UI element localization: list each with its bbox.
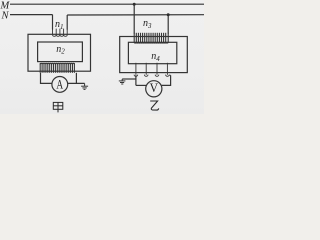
ground symbol right [119,79,126,84]
svg-text:A: A [56,78,63,92]
wire n4 left end down [135,75,137,85]
transformer yi core outer rect [120,37,188,73]
transformer jia core outer rect [28,34,91,71]
coil n2 winding (dense) [40,63,74,73]
coil n3 winding (dense) [134,33,168,43]
coil n1 turns [53,29,68,37]
svg-text:V: V [150,81,159,95]
wire ammeter to ground junction [68,82,85,84]
label jia (Chinese 甲) drawn as path [53,102,63,112]
wire n1 right lead to N [66,15,68,30]
ammeter A circle [52,77,68,93]
wire line M [10,3,204,5]
wire yi primary left lead from M [133,4,135,33]
svg-text:N: N [1,11,10,22]
wire voltmeter right up to n4 right end [162,75,171,85]
transformer yi core inner rect [128,42,176,63]
wire n2 right end drop [75,73,77,84]
background paper [0,0,204,114]
voltmeter V circle [146,81,162,97]
transformer jia core inner rect [38,42,83,62]
label yi (Chinese 乙) drawn as path [150,101,159,110]
wire n2 left end to ammeter [41,73,52,84]
wire line N left segment [10,14,53,16]
wire to ground right transformer [122,78,136,80]
junction dot on M [133,3,136,6]
junction dot on N [167,13,170,16]
ground symbol left [81,83,88,89]
coil n4 turns [134,63,171,77]
wire line N right segment [67,14,204,16]
wire to voltmeter left [136,84,146,86]
wire n1 left lead from N [52,15,54,30]
wire yi primary right lead from N [167,15,169,34]
